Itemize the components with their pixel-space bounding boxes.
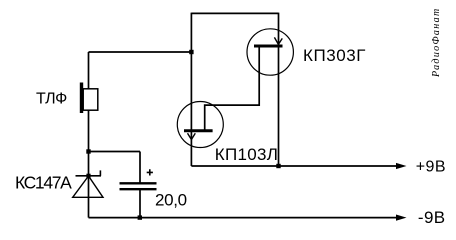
- svg-text:20,0: 20,0: [155, 191, 187, 210]
- wire left vertical (gate bus of VT2): [190, 13, 192, 166]
- node junction at capacitor branch: [86, 149, 90, 153]
- capacitor C1 top plate: [120, 182, 157, 184]
- arrowhead -9V: [396, 215, 407, 221]
- wire interstage (VT2 drain to VT1 source): [205, 47, 260, 130]
- wire +9V rail: [191, 165, 398, 167]
- transistor VT1 KP303G circle: [247, 29, 293, 75]
- svg-text:+9В: +9В: [416, 159, 446, 176]
- zener diode VD1 cathode bar: [76, 175, 102, 177]
- telephone BF1 body rectangle: [83, 89, 98, 110]
- node junction at zener cathode: [86, 174, 90, 178]
- node junction VT1 lead to +9V rail: [276, 164, 280, 168]
- transistor VT2 KP103L circle: [177, 102, 223, 148]
- svg-text:ТЛФ: ТЛФ: [36, 90, 67, 107]
- transistor VT1 channel bar: [254, 45, 283, 48]
- capacitor C1 bottom plate: [120, 188, 157, 190]
- wire right vertical (gate/drain line of VT1): [278, 13, 280, 166]
- wire capacitor branch horizontal: [89, 151, 141, 153]
- svg-text:РадиоФанат: РадиоФанат: [431, 7, 442, 78]
- wire TLF branch horizontal: [89, 51, 192, 53]
- telephone BF1 thick bar: [80, 83, 83, 114]
- transistor VT2 gate arrowhead: [188, 133, 196, 139]
- node junction capacitor to -9V rail: [138, 215, 142, 219]
- svg-text:КП303Г: КП303Г: [303, 46, 366, 65]
- capacitor C1 plus sign: [147, 169, 153, 175]
- transistor VT2 channel bar: [184, 129, 213, 132]
- wire capacitor upper vertical: [139, 152, 141, 184]
- svg-text:КП103Л: КП103Л: [215, 145, 278, 164]
- wire TLF upper vertical: [88, 52, 90, 89]
- arrowhead +9V: [396, 163, 407, 169]
- transistor VT1 gate arrowhead: [274, 37, 282, 44]
- svg-text:-9В: -9В: [418, 208, 446, 227]
- node junction at TLF branch and left vertical: [189, 50, 193, 54]
- zener diode VD1 triangle: [73, 176, 103, 197]
- wire top rail: [191, 12, 278, 14]
- wire main left vertical through zener: [88, 110, 90, 218]
- wire capacitor lower vertical: [139, 189, 141, 218]
- zener diode VD1 cathode tick: [99, 170, 101, 175]
- wire -9V rail: [89, 217, 399, 219]
- svg-text:КС147А: КС147А: [15, 173, 72, 193]
